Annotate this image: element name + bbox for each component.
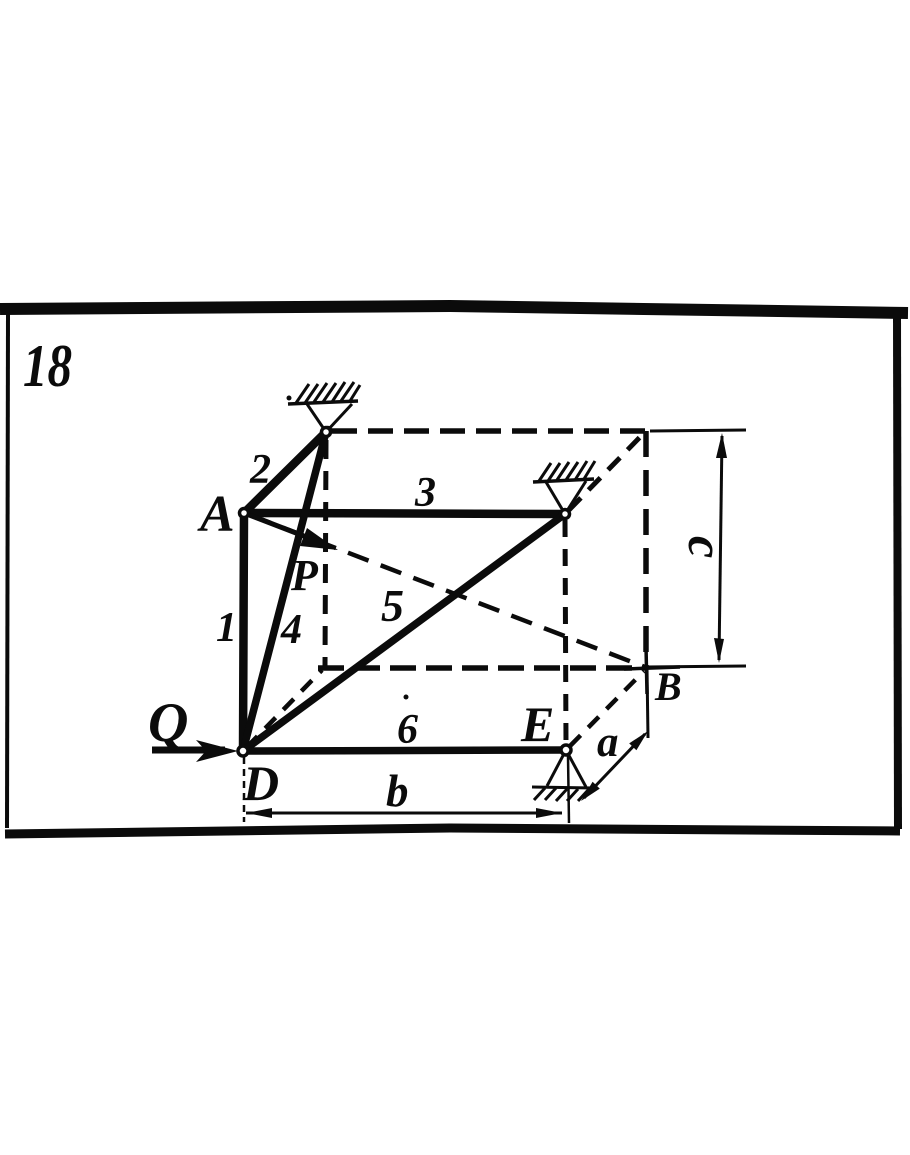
wire dashed depth edge D-BL — [247, 670, 322, 747]
node E pin — [561, 745, 571, 755]
extension line top for dimension c — [650, 430, 746, 431]
wire dashed back-left vertical T-BL — [325, 440, 326, 667]
node A — [240, 509, 249, 518]
wire dashed top edge T-TR extended — [332, 428, 648, 434]
dot above 6 — [404, 695, 409, 700]
svg-text:5: 5 — [381, 580, 404, 631]
support S3 below node E — [532, 750, 593, 801]
dimension b extension below D — [243, 757, 246, 822]
svg-text:b: b — [386, 766, 409, 816]
member 3 rod A-R — [244, 513, 565, 514]
wire dashed diagonal A-B line of action of P — [250, 515, 645, 667]
frame border bottom — [5, 828, 900, 834]
svg-text:E: E — [520, 696, 554, 752]
svg-text:c: c — [678, 536, 734, 558]
dimension b extension below E — [568, 756, 569, 823]
dimension a line E-B offset — [581, 731, 648, 801]
frame border left — [7, 313, 8, 828]
svg-text:3: 3 — [414, 470, 436, 516]
svg-text:2: 2 — [249, 447, 271, 493]
svg-text:D: D — [242, 755, 279, 811]
extension line below B for dimension a — [647, 668, 648, 738]
wire dashed back-right vertical TR-B — [643, 431, 649, 666]
extension line bottom for dimension c — [645, 666, 746, 667]
member 5 rod D-R — [243, 514, 565, 751]
force P arrow at A — [244, 513, 338, 550]
wire dashed bottom edge BL-B extended — [318, 665, 645, 671]
member 2 rod A-T — [244, 430, 328, 513]
node T pin — [322, 428, 331, 437]
node B junction cross — [624, 646, 680, 694]
svg-text:6: 6 — [397, 707, 418, 753]
dimension c line with arrows — [714, 433, 727, 663]
force Q arrow at D — [152, 740, 238, 762]
member 4 rod T-D — [243, 432, 326, 751]
wire dashed depth edge E-B — [570, 671, 644, 746]
svg-text:B: B — [654, 664, 682, 709]
member 6 rod D-E — [243, 750, 566, 751]
node R pin — [561, 510, 570, 519]
node D — [238, 746, 248, 756]
svg-text:a: a — [597, 719, 619, 766]
svg-text:18: 18 — [23, 333, 72, 399]
svg-text:A: A — [197, 486, 235, 543]
frame border top — [0, 306, 908, 313]
svg-text:Q: Q — [148, 692, 188, 754]
dimension b line — [246, 808, 562, 818]
wire dashed front-right vertical E-R — [565, 520, 566, 744]
svg-text:4: 4 — [280, 607, 302, 653]
member 1 rod A-D — [243, 513, 244, 751]
wire dashed depth edge R-TR — [569, 434, 643, 510]
frame border right — [897, 314, 898, 829]
svg-text:1: 1 — [216, 605, 237, 651]
support S2 above node R — [533, 461, 595, 514]
support S1 above node T — [287, 382, 361, 432]
svg-text:P: P — [290, 551, 319, 600]
